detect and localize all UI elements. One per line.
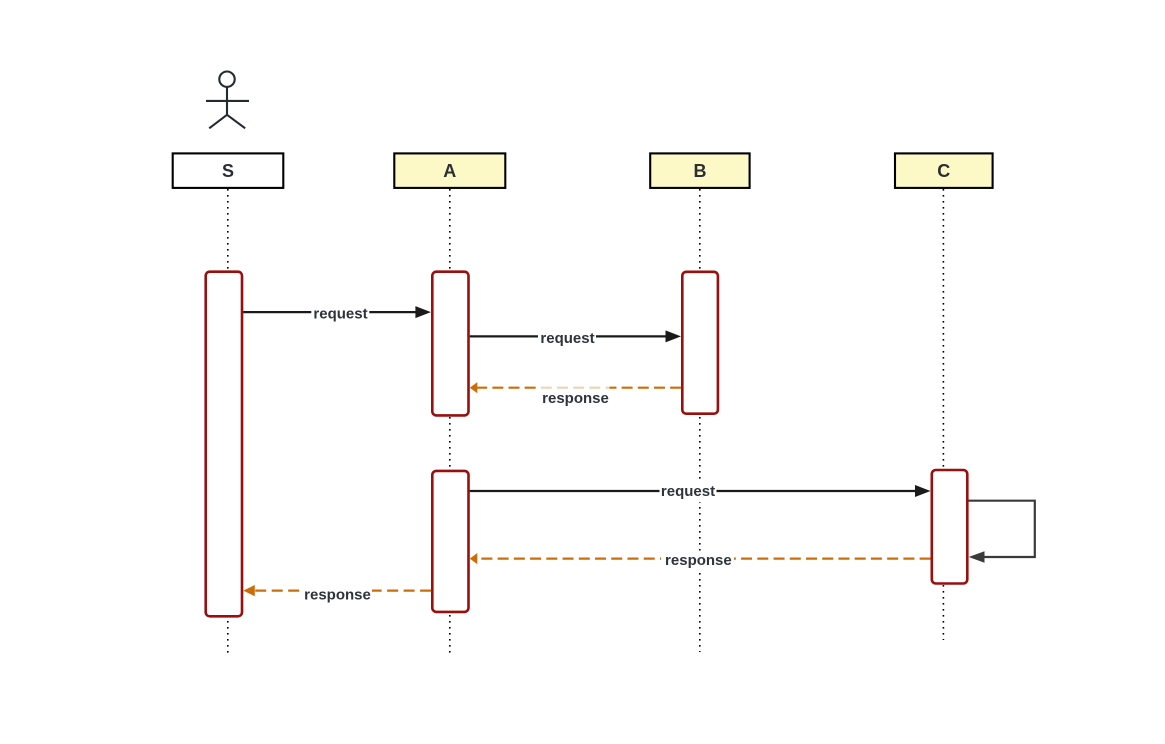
svg-text:B: B: [694, 161, 707, 181]
svg-text:A: A: [443, 161, 456, 181]
svg-text:S: S: [222, 161, 234, 181]
participant box S: [173, 153, 284, 188]
svg-text:response: response: [304, 587, 371, 604]
participant box C: [895, 153, 993, 188]
activation bar S: [206, 272, 242, 617]
lifeline C: [942, 189, 944, 640]
activation bar A2: [432, 471, 468, 612]
message response C to A: [470, 551, 931, 573]
activation bar A1: [432, 272, 468, 416]
actor: [206, 72, 249, 129]
svg-text:C: C: [937, 161, 950, 181]
message request S to A: [243, 303, 431, 323]
message response A to S: [243, 585, 431, 606]
activation bar C: [932, 470, 968, 584]
message request A to B: [470, 327, 681, 347]
lifeline S: [227, 189, 229, 655]
svg-text:response: response: [665, 552, 732, 569]
lifeline A: [449, 189, 451, 655]
participant box A: [394, 153, 505, 188]
svg-text:request: request: [661, 483, 715, 500]
message request A to C: [470, 481, 931, 502]
svg-text:request: request: [540, 330, 594, 347]
message response B to A: [470, 382, 681, 407]
lifeline B: [699, 189, 701, 652]
participant box B: [650, 153, 749, 188]
self message on C: [969, 501, 1035, 563]
svg-text:response: response: [542, 390, 609, 407]
svg-text:request: request: [313, 305, 367, 322]
activation bar B: [682, 272, 718, 414]
